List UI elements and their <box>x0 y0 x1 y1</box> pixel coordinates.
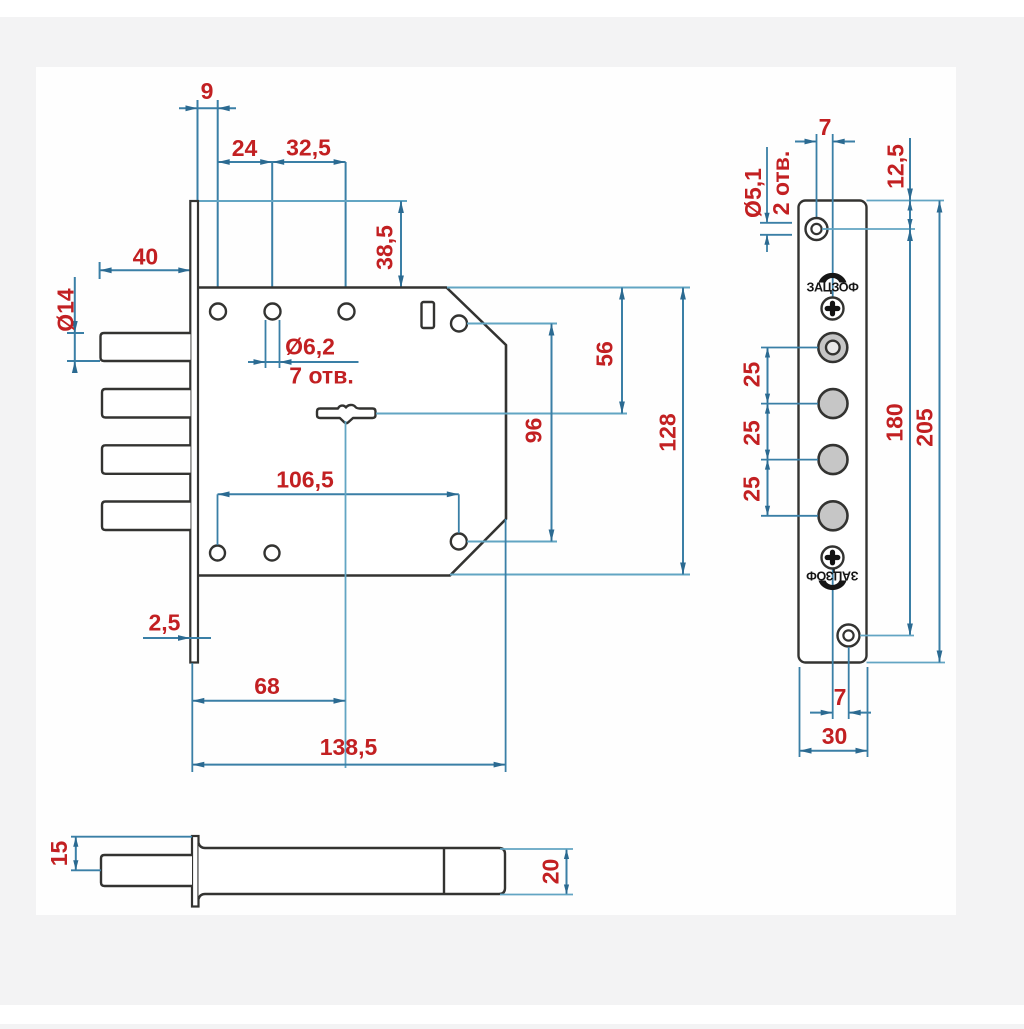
dimension 15 <box>75 837 77 871</box>
extension bottom screw hole down <box>848 647 850 719</box>
lock body outline <box>196 288 506 576</box>
dimension 106,5 <box>218 493 459 495</box>
svg-text:7 отв.: 7 отв. <box>289 363 353 389</box>
top screw hole inner <box>811 224 821 234</box>
brand logo top <box>806 273 859 295</box>
svg-text:24: 24 <box>232 135 258 161</box>
svg-text:30: 30 <box>822 723 848 749</box>
phillips screw bottom <box>822 547 844 569</box>
dimension 7 bottom <box>810 712 833 714</box>
top white strip <box>0 0 1024 17</box>
hole bottom row a <box>210 546 225 561</box>
dimension 68 <box>192 700 345 702</box>
center line bottom segment <box>832 568 834 719</box>
bolt pin 4 <box>102 502 191 531</box>
bottom screw hole inner <box>843 630 853 640</box>
bottom right hole extension line <box>467 541 557 543</box>
dimension dia 6,2 leader <box>248 361 359 363</box>
dimension 205 <box>939 201 941 663</box>
chamfer hole extension line <box>467 323 557 325</box>
bottom screw hole outer <box>838 625 860 647</box>
hole row1 b <box>265 304 281 320</box>
svg-text:ЗАЦЗОФ: ЗАЦЗОФ <box>806 281 859 295</box>
cylinder hole 1 <box>818 333 847 362</box>
top screw hole outer <box>806 218 828 240</box>
bolt pin 2 <box>102 389 191 418</box>
dimension dia 14 <box>74 277 76 366</box>
extension top screw hole column <box>816 134 818 229</box>
extension line hole column 2 <box>271 162 273 303</box>
extension plate left down <box>799 667 801 757</box>
svg-text:128: 128 <box>655 413 681 452</box>
svg-text:40: 40 <box>133 244 159 270</box>
dimension 24 and 32,5 <box>218 161 346 163</box>
hole row1 c <box>339 304 355 320</box>
plate bottom edge extension <box>867 662 946 664</box>
dimension 2,5 <box>143 637 211 639</box>
svg-text:2 отв.: 2 отв. <box>768 151 794 215</box>
hole row1 a <box>210 304 226 320</box>
extension keyhole center down <box>345 421 347 768</box>
svg-text:ЗАЦЗОФ: ЗАЦЗОФ <box>806 569 859 583</box>
cylinder hole 1 inner <box>826 341 840 355</box>
svg-text:56: 56 <box>592 341 618 367</box>
dimension 38,5 <box>400 201 402 288</box>
cylinder hole 2 <box>819 389 848 418</box>
svg-text:25: 25 <box>739 420 765 446</box>
hole center extension line top <box>822 228 915 230</box>
svg-text:138,5: 138,5 <box>320 734 378 760</box>
svg-text:68: 68 <box>254 673 280 699</box>
dimension 56 <box>621 288 623 414</box>
extension plate right down <box>867 667 869 757</box>
phillips screw top <box>822 298 844 320</box>
extension line hole column 3 <box>345 162 347 303</box>
keyhole center extension line <box>376 413 627 415</box>
slot opening <box>422 302 435 328</box>
dimension 7 top <box>795 141 817 143</box>
dimension dia 5,1 leader <box>766 147 768 223</box>
dimension 20 <box>566 849 568 895</box>
svg-text:Ø5,1: Ø5,1 <box>740 168 766 218</box>
svg-text:12,5: 12,5 <box>883 144 909 189</box>
faceplate top extension line <box>193 200 407 202</box>
hole bottom row b <box>265 546 280 561</box>
svg-text:Ø6,2: Ø6,2 <box>285 334 335 360</box>
bolt pin 3 <box>102 445 191 474</box>
dimension 12,5 and 180 <box>909 138 911 201</box>
faceplate side view <box>190 201 198 663</box>
svg-text:7: 7 <box>834 684 847 710</box>
svg-text:20: 20 <box>538 859 564 885</box>
svg-text:15: 15 <box>46 841 72 867</box>
brand logo bottom <box>806 569 859 591</box>
extension line hole column 1 <box>217 100 219 303</box>
hole near top chamfer <box>451 316 467 332</box>
bottom white strip <box>0 1005 1024 1024</box>
dimension 30 <box>800 750 868 752</box>
dimension chain 25 <box>767 348 769 516</box>
dimension 128 <box>682 288 684 575</box>
svg-text:7: 7 <box>819 114 832 140</box>
faceplate front view plate <box>799 201 867 663</box>
dimension 40 <box>100 269 191 271</box>
bolt side view faceplate <box>192 836 199 907</box>
bolt pin 1 <box>101 333 191 361</box>
svg-text:38,5: 38,5 <box>372 225 398 270</box>
body bottom extension line <box>450 574 690 576</box>
dimension 9 <box>179 107 236 109</box>
drawing sheet <box>36 67 956 915</box>
svg-text:180: 180 <box>882 403 908 441</box>
svg-text:25: 25 <box>739 362 765 388</box>
svg-text:205: 205 <box>912 408 938 447</box>
extension body right down <box>505 519 507 772</box>
keyway profile <box>317 405 376 423</box>
dimension 96 <box>551 324 553 542</box>
svg-text:32,5: 32,5 <box>286 135 331 161</box>
svg-text:106,5: 106,5 <box>276 467 334 493</box>
bolt side view divider <box>443 848 445 894</box>
body top right extension line <box>447 287 690 289</box>
plate top edge extension <box>867 200 945 202</box>
bolt side view body <box>199 843 506 899</box>
cylinder hole 4 <box>819 501 848 530</box>
bottom hole extension line <box>860 635 914 637</box>
svg-text:2,5: 2,5 <box>149 610 181 636</box>
svg-text:9: 9 <box>201 78 214 104</box>
svg-text:96: 96 <box>521 418 547 444</box>
bolt side view pin <box>101 855 192 886</box>
hole near bottom chamfer <box>451 534 467 550</box>
extension faceplate bottom left <box>191 663 193 772</box>
svg-text:25: 25 <box>739 476 765 502</box>
dimension 138,5 <box>192 764 505 766</box>
center line top segment <box>832 134 834 297</box>
extension line body left edge <box>197 100 199 201</box>
svg-text:Ø14: Ø14 <box>53 288 79 332</box>
cylinder hole 3 <box>819 445 848 474</box>
